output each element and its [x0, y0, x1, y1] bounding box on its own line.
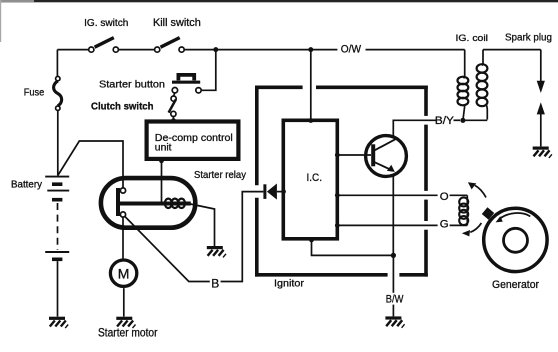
- svg-text:B/W: B/W: [386, 294, 404, 306]
- svg-text:Starter button: Starter button: [99, 79, 165, 90]
- svg-text:Fuse: Fuse: [24, 87, 45, 98]
- svg-text:Battery: Battery: [11, 180, 42, 191]
- svg-text:Ignitor: Ignitor: [274, 279, 305, 290]
- svg-text:IG. coil: IG. coil: [456, 32, 489, 43]
- svg-text:I.C.: I.C.: [307, 172, 323, 184]
- svg-text:Starter relay: Starter relay: [194, 170, 247, 181]
- svg-text:Generator: Generator: [492, 279, 539, 291]
- svg-text:IG. switch: IG. switch: [84, 18, 129, 29]
- svg-text:G: G: [440, 219, 449, 231]
- svg-text:Kill switch: Kill switch: [153, 17, 201, 29]
- svg-text:Spark plug: Spark plug: [505, 33, 552, 44]
- svg-text:B: B: [211, 276, 219, 290]
- svg-text:M: M: [118, 266, 130, 282]
- svg-text:Starter motor: Starter motor: [98, 326, 158, 340]
- svg-text:B/Y: B/Y: [435, 115, 454, 127]
- svg-text:Clutch switch: Clutch switch: [91, 101, 154, 112]
- svg-text:unit: unit: [155, 143, 172, 154]
- svg-text:O/W: O/W: [341, 43, 361, 55]
- svg-text:O: O: [440, 191, 449, 203]
